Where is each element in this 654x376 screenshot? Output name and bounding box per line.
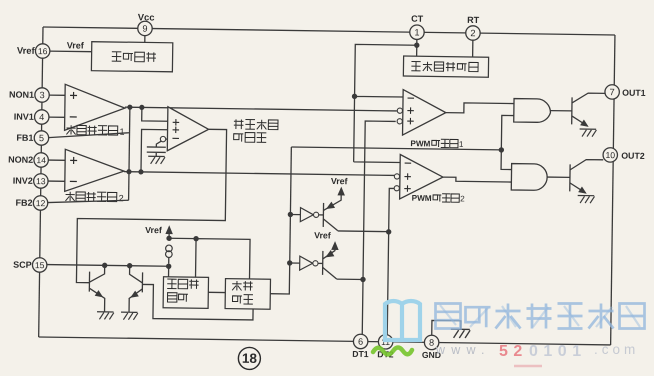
svg-text:Vref: Vref	[331, 176, 348, 186]
pin 3 NON1	[9, 87, 49, 102]
watermark text 家电维修资料网	[436, 304, 645, 329]
wire inverter rail to buffer B2 input	[290, 262, 300, 264]
svg-text:Vref: Vref	[67, 40, 85, 50]
svg-text:INV1: INV1	[14, 112, 34, 122]
pin 15 SCP	[13, 257, 47, 272]
wire PWM comparator 1 output to AND gate 1	[446, 103, 514, 114]
label system control comparator (系统控制比较器)	[234, 119, 278, 142]
pin 7 OUT1	[605, 85, 646, 100]
wire CT net to PWM comparators	[354, 44, 417, 162]
wire pin2 RT stub to oscillator box	[472, 40, 474, 57]
pin 9 Vcc	[138, 11, 155, 35]
wire error amp1 output to PWM comparator 1 input	[125, 107, 397, 111]
svg-text:PWM: PWM	[412, 194, 432, 203]
ground for Q3 emitter	[97, 312, 114, 320]
IC boundary left border wire	[39, 27, 43, 337]
svg-text:SCP: SCP	[13, 260, 32, 270]
svg-text:PWM: PWM	[410, 139, 430, 148]
junction Vref rail at current source	[166, 236, 171, 241]
svg-text:2: 2	[470, 28, 475, 38]
ground for capacitor C1	[148, 156, 165, 164]
junction error amp1 output dot B	[139, 105, 144, 110]
wire pin14 NON2 to error amp2 non-inverting input	[48, 159, 65, 161]
svg-text:Vref: Vref	[145, 225, 162, 235]
block U1 reference voltage regulator (参考电压)	[91, 42, 172, 72]
wire pin1 CT stub to oscillator box	[416, 39, 418, 56]
label error amplifier 1 (误差放大器1)	[66, 125, 124, 136]
svg-text:FB2: FB2	[15, 198, 32, 208]
svg-text:NON2: NON2	[8, 155, 33, 165]
wire FB1 pin5 to amplifier output node	[48, 132, 129, 139]
transistor Q1 output NPN	[572, 93, 606, 130]
pin 1 CT	[410, 14, 425, 40]
pin 6 DT1	[352, 334, 369, 359]
svg-text:8: 8	[429, 338, 434, 348]
pin 11 DT2	[377, 335, 394, 360]
ground for Q4 emitter	[121, 312, 138, 320]
wire AND gate 1 output to Q1 base	[550, 110, 571, 112]
power Vref arrow for Q6 emitter	[331, 241, 339, 250]
IC boundary bottom border wire	[39, 337, 611, 345]
current source I1	[165, 245, 172, 264]
svg-text:52: 52	[499, 343, 528, 360]
svg-text:Vref: Vref	[17, 45, 36, 56]
op-amp U6 PWM comparator 1	[397, 89, 446, 135]
block U9 under-voltage lockout (欠压锁定)	[225, 279, 270, 310]
wire control dot to AND gate 1 input	[501, 115, 513, 150]
junction CT net at PWM comparator 1 inverting input	[352, 94, 357, 99]
wire pin16 Vref to reference-voltage box	[50, 50, 92, 53]
net label Vref at Q6	[314, 230, 331, 240]
IC boundary top border wire	[43, 27, 615, 35]
svg-text:6: 6	[358, 337, 363, 347]
junction Vref rail at timer latch	[193, 236, 198, 241]
wire Q6 collector to DT1 net	[337, 278, 363, 280]
transistor Q3 latch NPN	[89, 265, 105, 312]
junction DT1 net dot	[360, 277, 365, 282]
wire Q5 collector to DT2 net	[338, 230, 389, 233]
junction error amp2 output dot D	[138, 169, 143, 174]
pin 2 RT	[466, 15, 481, 40]
wire Q4 base to UVLO output	[142, 284, 253, 320]
svg-text:12: 12	[36, 198, 46, 208]
wire amplifier output node vertical	[129, 107, 130, 200]
wire dot D to control comparator second + input	[141, 129, 168, 172]
AND gate G2	[511, 164, 547, 191]
svg-text:OUT1: OUT1	[622, 88, 646, 98]
svg-text:FB1: FB1	[16, 133, 33, 143]
svg-text:18: 18	[242, 351, 258, 366]
svg-text:1: 1	[459, 140, 464, 149]
pin 12 FB2	[15, 195, 47, 210]
wire PWM comparator 2 output to AND gate 2	[443, 177, 512, 182]
svg-text:4: 4	[39, 112, 44, 122]
svg-text:15: 15	[35, 260, 45, 270]
pin 13 INV2	[13, 173, 48, 188]
net label Vref at current source	[145, 225, 162, 235]
IC boundary right border wire	[611, 35, 615, 345]
pin 16 Vref	[17, 43, 50, 58]
power Vref arrow for Q5 emitter	[337, 187, 345, 196]
svg-text:DT1: DT1	[352, 349, 369, 359]
wire SCP node to timer latch box	[168, 266, 170, 276]
svg-text:10: 10	[605, 150, 615, 160]
wire pin9 Vcc to reference-voltage box	[144, 35, 146, 42]
wire FB2 pin12 to amplifier output node	[48, 199, 129, 204]
ground for GND pin	[451, 329, 470, 338]
svg-text:1: 1	[414, 27, 419, 37]
junction rail at buffer B1 input	[288, 212, 293, 217]
watermark url www.520101.com	[435, 342, 639, 366]
junction DT2 net dot	[386, 229, 391, 234]
transistor Q4 latch NPN	[128, 266, 142, 313]
svg-text:INV2: INV2	[13, 176, 33, 186]
capacitor C1 on control comparator input	[147, 141, 166, 157]
net label Vref at Q5	[331, 176, 348, 186]
op-amp U3 error amplifier 1	[65, 84, 126, 131]
wire pin13 INV2 to error amp2 inverting input	[48, 180, 65, 182]
AND gate G1	[514, 99, 551, 123]
wire timer latch to UVLO	[208, 291, 225, 293]
svg-text:NON1: NON1	[9, 90, 34, 100]
wire control comparator output to latch transistor base	[76, 128, 226, 285]
junction rail at buffer B2 input	[287, 260, 292, 265]
wire latch output rail to gate control line	[290, 147, 292, 263]
svg-text:.com: .com	[594, 342, 639, 357]
wire buffer B1 output to Q5 base	[319, 214, 324, 216]
wire Vref rail to latch blocks	[169, 238, 251, 279]
svg-text:Vcc: Vcc	[138, 11, 155, 22]
label error amplifier 2 (误差放大器2)	[65, 192, 123, 203]
svg-text:CT: CT	[411, 14, 424, 24]
junction CT node dot	[414, 42, 419, 47]
svg-text:7: 7	[610, 87, 615, 97]
label PWM comparator 2 (PWM比较器2)	[412, 193, 466, 203]
block U2 triangle oscillator (三角形振荡器)	[403, 56, 488, 77]
wire buffer B2 output to Q6 base	[318, 262, 323, 264]
svg-text:Vref: Vref	[314, 230, 331, 240]
junction gate control line dot	[499, 147, 504, 152]
svg-text:OUT2: OUT2	[621, 151, 645, 161]
pin 10 OUT2	[603, 148, 645, 163]
wire SCP pin15 line	[47, 265, 169, 267]
svg-text:16: 16	[38, 46, 48, 56]
wire DT1 pin6 net to PWM comparator 1 + input	[362, 121, 395, 335]
pin 4 INV1	[14, 109, 49, 124]
op-amp U7 PWM comparator 2	[394, 154, 443, 199]
label PWM comparator 1 (PWM比较器1)	[410, 139, 464, 149]
junction SCP line at Q4	[127, 263, 132, 268]
svg-text:13: 13	[36, 176, 46, 186]
net label Vref at pin16 wire	[67, 40, 85, 50]
op-amp U5 system control comparator	[167, 107, 209, 152]
svg-text:0101: 0101	[529, 343, 587, 360]
svg-text:14: 14	[36, 155, 46, 165]
wire inverter rail to buffer B1 input	[290, 213, 300, 215]
wire control dot to AND gate 2 input	[501, 150, 512, 170]
pin 8 GND	[422, 335, 441, 360]
junction error amp2 output dot C	[126, 169, 131, 174]
pin 14 NON2	[8, 152, 48, 167]
watermark book icon	[385, 301, 420, 340]
ground for Q2 emitter	[578, 195, 595, 203]
transistor Q2 output NPN	[570, 159, 604, 197]
wire gate control line from latch output to AND gates	[291, 147, 501, 150]
svg-text:RT: RT	[467, 15, 480, 25]
junction SCP line at current source	[166, 264, 171, 269]
offset bubble at control comparator inverting input	[160, 136, 167, 141]
watermark green underline	[373, 348, 412, 355]
ground for Q1 emitter	[580, 129, 597, 137]
figure number 18 circled	[238, 347, 260, 369]
svg-text:2: 2	[460, 194, 465, 203]
wire AND gate 2 output to Q2 base	[547, 176, 570, 178]
block U8 timer latch (定时器闭锁)	[163, 277, 208, 309]
wire pin3 NON1 to error amp1 non-inverting input	[49, 94, 65, 96]
svg-text:3: 3	[39, 90, 44, 100]
op-amp U4 error amplifier 2	[65, 149, 125, 192]
pin 5 FB1	[16, 130, 48, 145]
buffer B1 inverter	[300, 208, 318, 222]
svg-text:5: 5	[39, 133, 44, 143]
junction SCP line at Q3	[102, 263, 107, 268]
buffer B2 inverter	[300, 256, 318, 270]
wire DT2 pin11 net to PWM comparator 2 + input	[387, 188, 394, 335]
transistor Q5 dead-time PNP	[323, 192, 341, 231]
power Vref arrow for current source	[165, 225, 173, 238]
svg-text:1: 1	[119, 127, 124, 137]
wire pin8 GND to internal ground	[432, 320, 461, 335]
wire error amp2 output to PWM comparator 2 input	[124, 172, 396, 176]
junction error amp1 output dot A	[127, 105, 132, 110]
transistor Q6 dead-time PNP	[323, 244, 337, 278]
wire UVLO output to inverter rail	[270, 263, 289, 294]
wire pin4 INV1 to error amp1 inverting input	[49, 116, 65, 118]
wire dot B to control comparator first + input	[142, 107, 168, 121]
svg-text:2: 2	[119, 193, 124, 203]
svg-text:9: 9	[142, 24, 147, 34]
svg-text:www.: www.	[435, 343, 491, 357]
